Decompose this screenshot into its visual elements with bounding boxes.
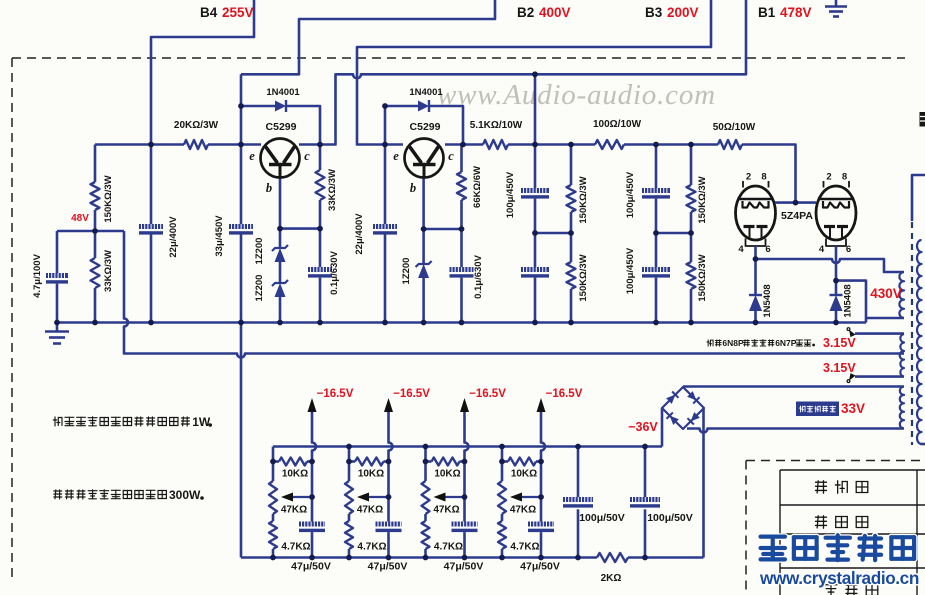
svg-text:47KΩ: 47KΩ	[357, 505, 383, 516]
svg-text:1N5408: 1N5408	[762, 284, 773, 317]
svg-text:400V: 400V	[539, 5, 571, 20]
svg-text:33V: 33V	[841, 401, 865, 416]
svg-text:4.7KΩ: 4.7KΩ	[357, 542, 386, 553]
svg-text:2: 2	[746, 172, 751, 183]
svg-text:b: b	[410, 181, 416, 195]
svg-text:255V: 255V	[222, 5, 254, 20]
svg-text:33KΩ/3W: 33KΩ/3W	[327, 169, 338, 211]
svg-text:100μ/50V: 100μ/50V	[647, 512, 693, 524]
svg-text:2: 2	[826, 172, 831, 183]
svg-text:10KΩ: 10KΩ	[282, 469, 308, 480]
svg-text:1N5408: 1N5408	[843, 284, 854, 317]
svg-text:47μ/50V: 47μ/50V	[520, 561, 560, 573]
svg-text:430V: 430V	[870, 286, 902, 301]
svg-text:8: 8	[842, 172, 847, 183]
svg-text:c: c	[448, 149, 454, 163]
svg-text:6N8P: 6N8P	[722, 338, 744, 348]
svg-text:100Ω/10W: 100Ω/10W	[593, 119, 642, 130]
svg-text:5Z4PA: 5Z4PA	[781, 210, 813, 222]
svg-text:47μ/50V: 47μ/50V	[291, 561, 331, 573]
svg-text:−16.5V: −16.5V	[546, 388, 583, 400]
svg-text:150KΩ/3W: 150KΩ/3W	[103, 175, 114, 222]
svg-text:e: e	[393, 149, 399, 163]
svg-text:200V: 200V	[667, 5, 699, 20]
svg-text:3.15V: 3.15V	[823, 361, 856, 375]
svg-text:50Ω/10W: 50Ω/10W	[713, 122, 756, 133]
svg-text:B2: B2	[517, 5, 534, 20]
svg-text:3.15V: 3.15V	[823, 336, 856, 350]
svg-text:−36V: −36V	[628, 420, 658, 434]
svg-text:B3: B3	[645, 5, 663, 20]
svg-text:100μ/450V: 100μ/450V	[625, 171, 636, 218]
svg-text:100μ/450V: 100μ/450V	[625, 247, 636, 294]
svg-text:20KΩ/3W: 20KΩ/3W	[174, 120, 219, 131]
svg-text:300W: 300W	[169, 488, 201, 502]
svg-text:1N4001: 1N4001	[266, 87, 300, 98]
svg-text:6N7P: 6N7P	[775, 338, 797, 348]
svg-text:150KΩ/3W: 150KΩ/3W	[578, 254, 589, 301]
svg-text:33μ/450V: 33μ/450V	[214, 215, 225, 257]
svg-text:100μ/50V: 100μ/50V	[579, 512, 625, 524]
svg-text:10KΩ: 10KΩ	[434, 469, 460, 480]
svg-text:6: 6	[765, 244, 770, 255]
svg-text:1Z200: 1Z200	[254, 275, 265, 302]
svg-text:66KΩ/6W: 66KΩ/6W	[472, 166, 483, 208]
svg-text:47μ/50V: 47μ/50V	[444, 561, 484, 573]
svg-text:2KΩ: 2KΩ	[601, 573, 622, 584]
svg-text:−16.5V: −16.5V	[469, 388, 506, 400]
svg-text:33KΩ/3W: 33KΩ/3W	[103, 250, 114, 292]
svg-text:6: 6	[846, 244, 851, 255]
svg-text:0.1μ/630V: 0.1μ/630V	[329, 250, 340, 295]
svg-text:47KΩ: 47KΩ	[510, 505, 536, 516]
svg-text:0.1μ/630V: 0.1μ/630V	[473, 254, 484, 299]
svg-text:47KΩ: 47KΩ	[281, 505, 307, 516]
svg-text:150KΩ/3W: 150KΩ/3W	[578, 176, 589, 223]
svg-text:B4: B4	[200, 5, 218, 20]
svg-text:4.7KΩ: 4.7KΩ	[281, 542, 310, 553]
svg-text:B1: B1	[758, 5, 776, 20]
svg-text:478V: 478V	[780, 5, 812, 20]
svg-text:c: c	[304, 149, 310, 163]
svg-text:22μ/400V: 22μ/400V	[354, 213, 365, 255]
svg-text:4: 4	[738, 244, 744, 255]
svg-text:1Z200: 1Z200	[401, 258, 412, 285]
svg-text:−16.5V: −16.5V	[393, 388, 430, 400]
svg-text:4.7μ/100V: 4.7μ/100V	[32, 253, 43, 298]
svg-text:8: 8	[761, 172, 766, 183]
svg-text:C5299: C5299	[410, 121, 441, 133]
svg-text:47μ/50V: 47μ/50V	[368, 561, 408, 573]
svg-text:150KΩ/3W: 150KΩ/3W	[697, 176, 708, 223]
svg-text:1W: 1W	[192, 415, 211, 429]
svg-text:48V: 48V	[71, 213, 89, 224]
svg-text:1Z200: 1Z200	[254, 238, 265, 265]
svg-text:C5299: C5299	[266, 121, 297, 133]
svg-text:5.1KΩ/10W: 5.1KΩ/10W	[470, 120, 523, 131]
svg-text:22μ/400V: 22μ/400V	[168, 216, 179, 258]
svg-text:1N4001: 1N4001	[409, 87, 443, 98]
svg-text:−16.5V: −16.5V	[317, 388, 354, 400]
svg-text:4: 4	[819, 244, 825, 255]
svg-text:www.crystalradio.cn: www.crystalradio.cn	[759, 568, 919, 588]
svg-text:4.7KΩ: 4.7KΩ	[434, 542, 463, 553]
svg-text:10KΩ: 10KΩ	[358, 469, 384, 480]
svg-text:100μ/450V: 100μ/450V	[505, 171, 516, 218]
svg-text:www.Audio-audio.com: www.Audio-audio.com	[437, 79, 716, 111]
svg-text:150KΩ/3W: 150KΩ/3W	[697, 254, 708, 301]
svg-text:e: e	[249, 149, 255, 163]
svg-text:b: b	[266, 181, 272, 195]
svg-text:10KΩ: 10KΩ	[511, 469, 537, 480]
svg-text:4.7KΩ: 4.7KΩ	[510, 542, 539, 553]
svg-text:47KΩ: 47KΩ	[433, 505, 459, 516]
